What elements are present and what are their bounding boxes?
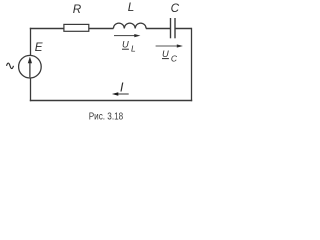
svg-text:U: U <box>162 49 169 59</box>
svg-text:U: U <box>122 40 129 50</box>
wire left upper <box>30 28 32 56</box>
svg-text:C: C <box>171 2 180 15</box>
wire capacitor to top-right corner <box>175 28 192 30</box>
capacitor right plate <box>174 18 176 38</box>
svg-text:L: L <box>131 43 136 53</box>
svg-text:I: I <box>120 79 124 94</box>
svg-text:C: C <box>171 53 178 63</box>
wire bottom <box>30 100 192 102</box>
current arrow I head <box>112 92 118 95</box>
wire resistor to inductor <box>89 28 114 30</box>
voltage arrow U_L head <box>134 34 140 37</box>
wire left lower <box>30 78 32 101</box>
underline of U_L <box>122 48 129 50</box>
wire inductor to capacitor <box>146 28 171 30</box>
current arrow I shaft <box>116 93 129 95</box>
svg-text:E: E <box>35 41 43 54</box>
svg-text:R: R <box>73 3 82 16</box>
voltage arrow U_C head <box>177 44 183 47</box>
wire top-left corner to resistor <box>31 28 65 31</box>
voltage arrow U_L shaft <box>114 35 136 37</box>
source EMF arrow shaft <box>29 63 31 78</box>
resistor R box <box>64 24 89 31</box>
inductor L humps <box>113 23 146 28</box>
source circle <box>19 55 42 78</box>
AC tilde symbol <box>7 63 14 69</box>
svg-text:L: L <box>128 1 135 14</box>
capacitor left plate <box>170 18 172 38</box>
source EMF arrow head <box>28 57 32 64</box>
svg-text:Рис. 3.18: Рис. 3.18 <box>89 111 124 122</box>
underline of U_C <box>162 58 169 60</box>
voltage arrow U_C shaft <box>156 45 179 47</box>
wire right side <box>191 28 193 101</box>
